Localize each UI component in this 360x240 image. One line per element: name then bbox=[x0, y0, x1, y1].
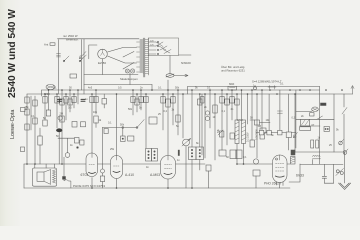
svg-text:60Ω: 60Ω bbox=[229, 82, 234, 86]
svg-text:0,3: 0,3 bbox=[292, 117, 296, 120]
svg-text:PHO 2602 T: PHO 2602 T bbox=[264, 181, 282, 185]
svg-text:0,1/250V: 0,1/250V bbox=[247, 132, 250, 142]
svg-text:4n5: 4n5 bbox=[88, 86, 93, 89]
svg-text:PHOE 0475 NFX 04753: PHOE 0475 NFX 04753 bbox=[73, 184, 105, 188]
svg-text:A-M03: A-M03 bbox=[150, 173, 160, 177]
svg-text:Ant: Ant bbox=[44, 42, 48, 46]
svg-text:Loewe-Opta: Loewe-Opta bbox=[10, 110, 16, 139]
svg-text:W30: W30 bbox=[44, 92, 50, 96]
svg-text:EZ 80: EZ 80 bbox=[98, 61, 106, 65]
svg-text:0,5: 0,5 bbox=[68, 107, 72, 110]
svg-text:0,5M: 0,5M bbox=[237, 119, 243, 122]
svg-text:und Raumton 6231: und Raumton 6231 bbox=[221, 69, 245, 73]
svg-text:0,1: 0,1 bbox=[207, 86, 211, 89]
svg-text:0,1: 0,1 bbox=[53, 86, 57, 89]
svg-text:0,5: 0,5 bbox=[118, 86, 122, 89]
svg-text:0,1: 0,1 bbox=[222, 110, 226, 113]
svg-text:N/6020: N/6020 bbox=[181, 61, 191, 65]
svg-text:1M: 1M bbox=[258, 125, 261, 128]
svg-text:2M: 2M bbox=[60, 113, 63, 116]
svg-text:6V33: 6V33 bbox=[296, 174, 304, 178]
svg-text:2540 W und 540 W: 2540 W und 540 W bbox=[7, 9, 18, 98]
svg-text:Skalenlampen: Skalenlampen bbox=[120, 77, 138, 81]
svg-text:0,05/250V: 0,05/250V bbox=[256, 129, 259, 140]
svg-text:A-410: A-410 bbox=[125, 173, 134, 177]
svg-text:0,1: 0,1 bbox=[243, 156, 247, 159]
svg-text:0,1: 0,1 bbox=[280, 83, 284, 86]
svg-text:S=4.1289/W61/1974-LT: S=4.1289/W61/1974-LT bbox=[252, 79, 282, 83]
svg-text:6T03: 6T03 bbox=[81, 173, 89, 177]
svg-text:0,1: 0,1 bbox=[108, 122, 112, 125]
svg-text:0,1: 0,1 bbox=[31, 115, 35, 118]
svg-text:0,1: 0,1 bbox=[158, 86, 162, 89]
svg-text:0,2: 0,2 bbox=[164, 110, 168, 113]
svg-text:Wellensch.: Wellensch. bbox=[66, 37, 79, 41]
